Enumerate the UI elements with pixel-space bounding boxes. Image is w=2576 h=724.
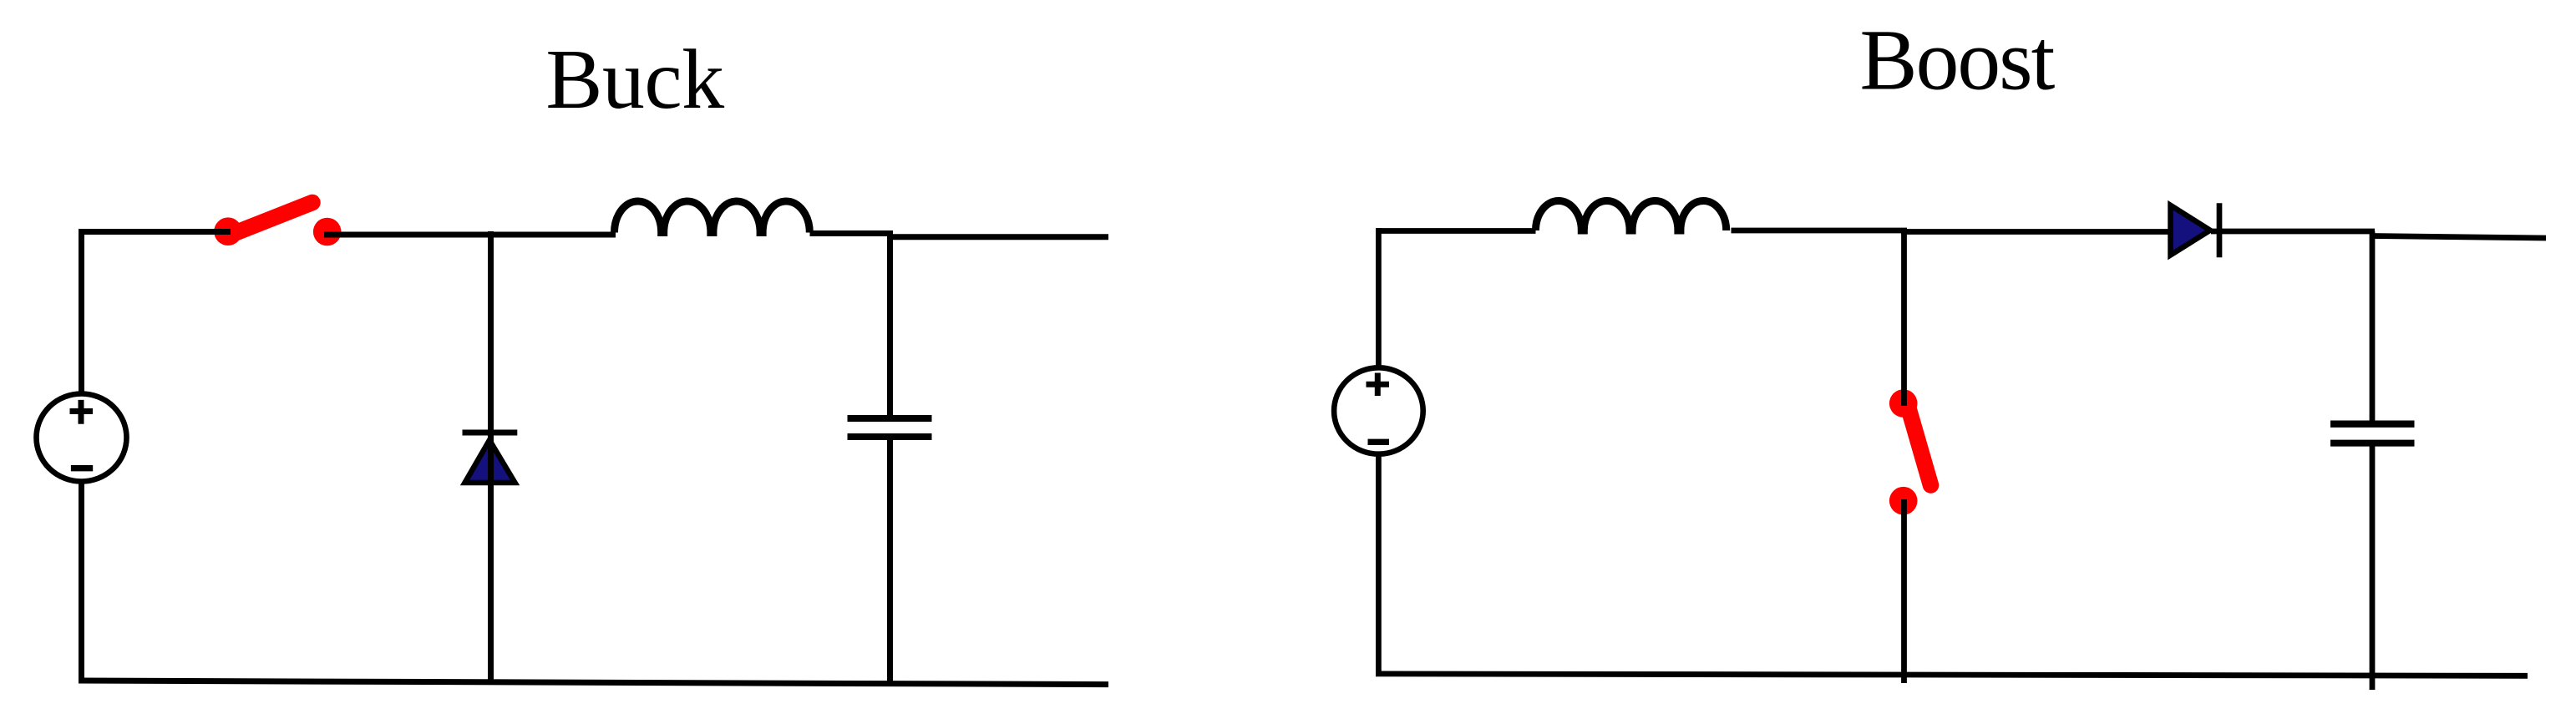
voltage source V2 plus sign bbox=[1367, 373, 1390, 397]
wire: capacitor branch bottom bbox=[2370, 446, 2376, 690]
diode D2 triangle (navy fill) bbox=[2171, 205, 2211, 256]
switch S2 lever (red) bbox=[1909, 408, 1931, 486]
wire: diode branch vertical bbox=[488, 231, 494, 683]
wire: switch branch top bbox=[1901, 228, 1907, 406]
wire: top left from source to inductor bbox=[1376, 228, 1536, 234]
inductor L1 (4 humps) bbox=[615, 201, 810, 233]
switch S1 right contact dot bbox=[313, 218, 342, 246]
diode D1 cathode bar bbox=[463, 430, 518, 436]
wire: left vertical (source branch) bbox=[79, 229, 84, 681]
wire: diode to capacitor node bbox=[2211, 229, 2375, 235]
wire: left vertical (source branch) bbox=[1376, 228, 1382, 676]
capacitor C2 top plate bbox=[2330, 421, 2415, 428]
wire: bottom rail bbox=[1376, 674, 2528, 676]
capacitor C1 top plate bbox=[848, 415, 932, 422]
capacitor C1 bottom plate bbox=[848, 433, 932, 440]
capacitor C2 bottom plate bbox=[2330, 440, 2415, 447]
wire: output top extension bbox=[2371, 236, 2546, 239]
wire: output top extension bbox=[887, 234, 1108, 240]
wire: top left from source to switch bbox=[79, 229, 231, 235]
wire: switch to inductor bbox=[324, 232, 616, 238]
svg-text:Buck: Buck bbox=[545, 33, 724, 127]
voltage source V2 circle bbox=[1334, 367, 1423, 453]
diode D2 cathode bar bbox=[2217, 203, 2223, 257]
wire: switch branch bottom bbox=[1901, 499, 1907, 683]
wire: switch node to diode bbox=[1901, 229, 2170, 235]
switch S1 lever (red) bbox=[233, 203, 312, 235]
wire: capacitor branch top bbox=[887, 231, 893, 416]
wire: bottom rail bbox=[79, 681, 1108, 685]
switch S1 left contact dot bbox=[214, 217, 242, 246]
switch S2 bottom contact dot bbox=[1889, 487, 1918, 515]
voltage source V2 minus sign bbox=[1368, 439, 1390, 445]
wire: inductor to capacitor node bbox=[810, 230, 894, 236]
wire: inductor to switch node bbox=[1732, 228, 1908, 234]
switch S2 top contact dot bbox=[1889, 389, 1918, 418]
wire: capacitor branch top bbox=[2370, 231, 2376, 421]
wire: capacitor branch bottom bbox=[887, 440, 893, 685]
svg-text:Boost: Boost bbox=[1859, 13, 2055, 109]
diode D1 triangle (navy fill) bbox=[465, 440, 515, 483]
voltage source V1 minus sign bbox=[71, 465, 93, 471]
voltage source V1 circle bbox=[37, 394, 127, 482]
voltage source V1 plus sign bbox=[70, 400, 94, 424]
inductor L2 (4 humps) bbox=[1536, 200, 1727, 230]
